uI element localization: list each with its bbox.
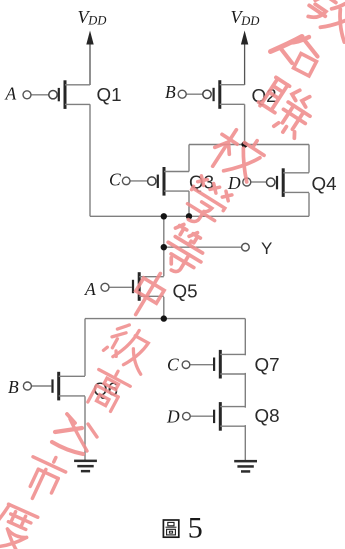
svg-text:D: D — [166, 406, 180, 426]
svg-text:5: 5 — [188, 511, 203, 544]
svg-text:Q7: Q7 — [255, 354, 280, 375]
svg-text:DD: DD — [87, 14, 106, 28]
svg-text:Y: Y — [261, 239, 272, 258]
svg-text:A: A — [84, 279, 96, 299]
svg-text:Q4: Q4 — [312, 173, 337, 194]
svg-text:DD: DD — [240, 14, 259, 28]
svg-text:Q1: Q1 — [97, 84, 122, 105]
svg-text:C: C — [167, 355, 179, 375]
svg-text:B: B — [8, 377, 19, 397]
svg-text:B: B — [165, 82, 176, 102]
svg-text:D: D — [227, 173, 241, 193]
svg-text:Q5: Q5 — [173, 280, 198, 301]
svg-text:C: C — [109, 170, 121, 190]
svg-text:A: A — [5, 83, 17, 103]
svg-text:Q8: Q8 — [255, 405, 280, 426]
